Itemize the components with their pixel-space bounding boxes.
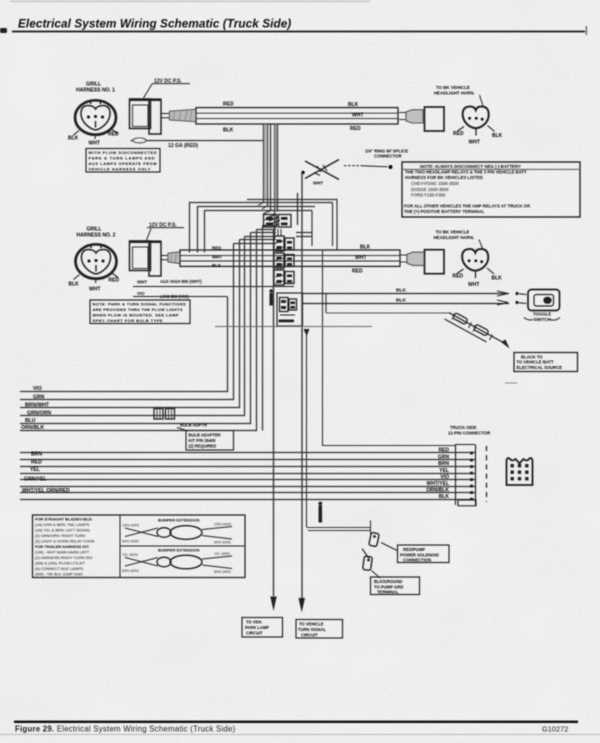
table chart box	[33, 515, 246, 578]
svg-text:VEHICLE HARNESS ONLY: VEHICLE HARNESS ONLY	[89, 167, 151, 172]
svg-text:NOTE: PARK & TURN SIGNAL FUNCT: NOTE: PARK & TURN SIGNAL FUNCTIONS	[93, 302, 186, 307]
svg-text:(5W) - TIE BLK JUMP GND: (5W) - TIE BLK JUMP GND	[35, 572, 83, 577]
svg-text:RED: RED	[352, 269, 363, 275]
svg-text:TOGGLE: TOGGLE	[533, 312, 551, 317]
svg-text:TO PUMP GRD: TO PUMP GRD	[374, 584, 403, 589]
svg-text:(2) HARNESS RIGHT TURN SIG: (2) HARNESS RIGHT TURN SIG	[35, 555, 92, 560]
svg-text:RED: RED	[350, 126, 361, 132]
splice X symbol	[301, 160, 339, 186]
svg-text:FOR STRAIGHT BLADE/V-BLD:: FOR STRAIGHT BLADE/V-BLD:	[35, 517, 93, 522]
arrow to park lamp box	[270, 597, 276, 612]
svg-text:RED: RED	[108, 132, 119, 138]
svg-text:RED: RED	[212, 246, 221, 251]
svg-text:12V DC P.S.: 12V DC P.S.	[149, 223, 177, 229]
svg-text:HEADLIGHT HARN.: HEADLIGHT HARN.	[434, 91, 475, 96]
svg-text:BULB ADAPTER: BULB ADAPTER	[189, 433, 221, 438]
svg-text:YEL: YEL	[439, 468, 449, 474]
svg-text:RED/PUMP: RED/PUMP	[403, 547, 425, 552]
svg-text:LOW BM (VIO): LOW BM (VIO)	[160, 294, 189, 299]
svg-text:SPEC CHART FOR BULB TYPE: SPEC CHART FOR BULB TYPE	[93, 318, 163, 323]
wire color labels group1	[21, 386, 51, 431]
svg-text:GRN: GRN	[438, 455, 450, 461]
svg-text:WHEN PLOW IS MOUNTED. SEE LAMP: WHEN PLOW IS MOUNTED. SEE LAMP	[93, 313, 179, 318]
svg-text:BRN WIRE: BRN WIRE	[122, 540, 140, 544]
stack lower box group	[277, 293, 303, 326]
label box pump solenoid	[398, 545, 450, 563]
svg-text:BLK: BLK	[492, 133, 503, 139]
svg-text:TURN SIGNAL: TURN SIGNAL	[298, 627, 326, 632]
svg-text:RED: RED	[109, 278, 120, 284]
svg-text:RED: RED	[223, 102, 234, 108]
svg-text:Electrical System Wiring Schem: Electrical System Wiring Schematic (Truc…	[18, 18, 291, 31]
footer caption	[15, 725, 568, 734]
svg-text:HARNESS NO. 2: HARNESS NO. 2	[77, 233, 116, 239]
svg-text:1/4" RING W/ SPLICE: 1/4" RING W/ SPLICE	[365, 148, 408, 153]
label H2 to vehicle headlight 2	[434, 230, 503, 289]
svg-text:DODGE 1500-3500: DODGE 1500-3500	[411, 187, 449, 192]
note box NB3 battery source	[514, 353, 578, 372]
svg-text:CIRCUIT: CIRCUIT	[246, 631, 263, 636]
footer rule top	[14, 721, 578, 723]
label bulb adapter w/ box	[177, 423, 234, 451]
svg-text:RED: RED	[453, 131, 464, 137]
svg-text:THE (+) POSITIVE BATTERY TERMI: THE (+) POSITIVE BATTERY TERMINAL	[404, 209, 485, 214]
svg-text:BLK: BLK	[348, 102, 359, 108]
stack module squiggles	[264, 218, 284, 283]
label C1 grille harness name	[68, 82, 119, 147]
label box park lamp	[242, 618, 283, 638]
splice 1/4 ring label	[365, 148, 408, 158]
wire bundle B2	[180, 250, 400, 266]
wire to pump solenoid	[307, 521, 372, 535]
svg-text:YEL WIRE: YEL WIRE	[122, 553, 139, 557]
switch lead arrows	[497, 291, 527, 305]
wire gray to battery note	[326, 312, 449, 314]
svg-text:AUX HIGH BM (WHT): AUX HIGH BM (WHT)	[160, 279, 202, 284]
wire vertical splice to turn signal box	[301, 173, 303, 598]
svg-text:GRN: GRN	[33, 394, 45, 400]
svg-text:TO VEH.: TO VEH.	[246, 620, 262, 625]
svg-text:WHT: WHT	[89, 287, 100, 293]
wire color labels group2 left	[22, 451, 70, 494]
connector stack modules	[264, 215, 295, 286]
scan smudge rule end	[0, 1, 370, 34]
svg-text:12-PIN CONNECTOR: 12-PIN CONNECTOR	[448, 431, 491, 436]
label L2 12V DC w/ pointer	[147, 223, 185, 241]
svg-text:(1W) - WHT MAIN HARN LEFT: (1W) - WHT MAIN HARN LEFT	[35, 550, 90, 555]
svg-text:BLK: BLK	[439, 494, 450, 500]
svg-text:BLU: BLU	[25, 418, 36, 424]
label L1 12V DC w/ pointer	[144, 79, 191, 99]
svg-text:CIRCUIT: CIRCUIT	[301, 632, 318, 637]
connector H1 headlight plug	[458, 107, 495, 136]
wire cross line y326	[215, 326, 372, 328]
scan tick right of title rule	[586, 26, 588, 35]
svg-text:RED: RED	[31, 460, 42, 466]
wire fan corner bundle to left wires	[20, 226, 276, 431]
inline connectors diagonal pair	[445, 313, 510, 349]
wire BLK to switch 2	[303, 298, 510, 304]
svg-text:RED: RED	[438, 448, 449, 454]
svg-text:GRN/YEL: GRN/YEL	[24, 477, 47, 483]
svg-text:HEADLIGHT HARN.: HEADLIGHT HARN.	[434, 235, 475, 240]
svg-text:BLK: BLK	[396, 288, 407, 294]
svg-text:VIO: VIO	[137, 291, 145, 296]
table drawing bottom: bumper extension 2	[122, 548, 232, 575]
svg-text:ORN/BLK: ORN/BLK	[21, 425, 45, 431]
connector R1 plug body	[130, 99, 162, 134]
connector R2 plug body	[130, 241, 162, 276]
svg-text:TO BK VEHICLE: TO BK VEHICLE	[436, 85, 470, 90]
svg-text:WHT: WHT	[137, 280, 147, 285]
svg-text:WHT: WHT	[468, 282, 479, 288]
svg-text:BLK: BLK	[492, 276, 503, 282]
svg-text:BLK: BLK	[360, 244, 371, 250]
svg-text:BRN WIRE: BRN WIRE	[214, 541, 232, 545]
svg-text:BLK/GROUND: BLK/GROUND	[374, 579, 402, 584]
svg-text:(2) REQUIRED: (2) REQUIRED	[189, 444, 217, 449]
svg-text:CHEVY/GMC 1500-3500: CHEVY/GMC 1500-3500	[411, 181, 459, 186]
svg-text:(1A) GRN & BRN: TAIL LAMPS: (1A) GRN & BRN: TAIL LAMPS	[35, 522, 90, 527]
connector H2 headlight plug 2	[457, 249, 494, 278]
pin bracket column	[455, 445, 487, 506]
svg-text:HARNESS FOR BK VEHICLES LISTED: HARNESS FOR BK VEHICLES LISTED	[405, 175, 483, 180]
svg-text:(3W) & (2W): PLOW LTS A/T: (3W) & (2W): PLOW LTS A/T	[35, 561, 86, 566]
svg-text:BRN: BRN	[31, 451, 42, 457]
label box turn signal	[296, 620, 343, 639]
svg-text:CONNECTOR: CONNECTOR	[374, 154, 403, 159]
svg-text:BRN WIRE: BRN WIRE	[214, 570, 232, 574]
wire vertical core bundle	[264, 125, 278, 241]
svg-text:Figure 29. Electrical System W: Figure 29. Electrical System Wiring Sche…	[15, 725, 236, 734]
svg-text:GRN WIRE: GRN WIRE	[214, 523, 232, 527]
label truck side connector	[448, 425, 491, 436]
title rule	[12, 31, 585, 33]
svg-text:WHT: WHT	[355, 255, 366, 261]
fuse bar left	[269, 289, 273, 305]
svg-text:(2) GRN/ORN: RIGHT TURN: (2) GRN/ORN: RIGHT TURN	[35, 533, 85, 538]
svg-text:TO VEHICLE: TO VEHICLE	[299, 622, 324, 627]
svg-text:12 GA (RED): 12 GA (RED)	[168, 143, 198, 149]
svg-text:(4) CONNECT AUX LAMPS: (4) CONNECT AUX LAMPS	[35, 566, 84, 571]
svg-text:NOTE: ALWAYS DISCONNECT NEG (-: NOTE: ALWAYS DISCONNECT NEG (-) BATTERY	[420, 164, 521, 169]
svg-text:FOR ALL OTHER VEHICLES THE AMP: FOR ALL OTHER VEHICLES THE AMP RELAYS AT…	[404, 203, 531, 208]
svg-text:CONNECTION: CONNECTION	[403, 558, 431, 563]
wire labels B2	[212, 244, 371, 274]
svg-text:WHT: WHT	[313, 181, 323, 186]
wire bundle B1	[196, 108, 398, 124]
svg-text:GRN WIRE: GRN WIRE	[122, 524, 140, 528]
connector C1 grille harness	[73, 100, 118, 139]
svg-text:BLK: BLK	[68, 136, 79, 142]
stub below note box	[505, 382, 517, 384]
svg-text:PARK & TURN LAMPS AND: PARK & TURN LAMPS AND	[89, 156, 155, 161]
svg-text:G10272: G10272	[542, 725, 568, 734]
svg-text:AUX LAMPS OPERATE FROM: AUX LAMPS OPERATE FROM	[89, 161, 157, 166]
title text	[18, 18, 291, 31]
svg-text:BLK: BLK	[69, 282, 80, 288]
svg-text:WITH PLOW DISCONNECTED: WITH PLOW DISCONNECTED	[89, 150, 157, 155]
svg-text:BRN/WHT: BRN/WHT	[25, 402, 50, 408]
label C2 name	[69, 227, 120, 293]
plug P1	[399, 110, 423, 123]
svg-text:PARK LAMP: PARK LAMP	[245, 625, 269, 630]
wire to bracket top	[323, 250, 456, 446]
svg-text:BRN WIRE: BRN WIRE	[122, 569, 140, 573]
svg-text:BLK: BLK	[212, 263, 222, 268]
wire labels B1	[223, 102, 363, 134]
wire aux high beam	[133, 279, 294, 286]
table drawing top: bumper extension	[122, 518, 232, 545]
svg-text:SWITCH: SWITCH	[534, 317, 551, 322]
svg-text:12V DC P.S.: 12V DC P.S.	[154, 79, 182, 85]
svg-text:FORD F150-F350: FORD F150-F350	[411, 193, 446, 198]
wire vertical to park lamp box	[273, 229, 275, 596]
svg-text:HARNESS NO. 1: HARNESS NO. 1	[76, 88, 115, 94]
label H1 to vehicle headlight	[434, 85, 503, 146]
svg-text:BLACK TO: BLACK TO	[521, 354, 543, 359]
wire feed trio to bundle B2	[190, 203, 333, 253]
inline connector pump ground	[362, 549, 380, 579]
inline connector pump solenoid	[369, 532, 397, 550]
svg-text:BUMPER EXTENSION: BUMPER EXTENSION	[158, 548, 200, 553]
wire color labels group2 right	[426, 448, 449, 501]
svg-text:WHT: WHT	[212, 255, 222, 260]
note box NB caution text	[402, 162, 580, 217]
toggle switch	[524, 290, 560, 322]
svg-text:WHT/YEL: WHT/YEL	[427, 481, 450, 487]
svg-text:RED: RED	[453, 274, 464, 280]
svg-text:TO VEHICLE BATT: TO VEHICLE BATT	[517, 360, 555, 365]
svg-text:BLK: BLK	[223, 128, 234, 134]
bulb adapter inline connectors	[154, 409, 175, 420]
svg-text:ORN/BLK: ORN/BLK	[426, 488, 449, 494]
connector S2 square	[425, 250, 445, 274]
label box pump ground	[371, 577, 420, 595]
svg-text:WHT: WHT	[352, 113, 363, 119]
loop box right of stack	[247, 193, 337, 250]
connector 12-pin grid	[507, 458, 533, 485]
svg-text:BULB ADPTR: BULB ADPTR	[180, 423, 207, 428]
svg-text:ARE PROVIDED THRU THE PLOW LIG: ARE PROVIDED THRU THE PLOW LIGHTS	[93, 307, 183, 312]
svg-text:YEL WIRE: YEL WIRE	[214, 552, 231, 556]
junction knot marks	[258, 202, 280, 224]
wire pump drop w/ arrow	[304, 329, 310, 527]
wire BLK to switch 1	[303, 288, 510, 294]
svg-text:WHT: WHT	[469, 140, 480, 146]
svg-text:WHT/YEL ORN/RED: WHT/YEL ORN/RED	[22, 488, 70, 494]
svg-text:TERMINAL: TERMINAL	[377, 590, 399, 595]
label box LB1	[86, 149, 160, 173]
svg-text:(3) LIGHT & HORN RELAY CONN: (3) LIGHT & HORN RELAY CONN	[35, 539, 95, 544]
svg-text:WHT: WHT	[89, 141, 100, 147]
svg-text:POWER SOLENOID: POWER SOLENOID	[400, 552, 439, 557]
footer rule bottom	[0, 733, 600, 736]
wire splice lead	[344, 165, 393, 169]
svg-text:FOR TRAILER HARNESS KIT:: FOR TRAILER HARNESS KIT:	[35, 544, 89, 549]
stack dark contacts	[266, 217, 292, 283]
svg-text:VIO: VIO	[440, 474, 449, 480]
plug P2	[400, 252, 424, 265]
wire 12GA red	[131, 138, 264, 149]
pump feed bar	[318, 502, 322, 523]
svg-text:BUMPER EXTENSION: BUMPER EXTENSION	[158, 518, 200, 523]
svg-text:YEL: YEL	[30, 467, 40, 473]
svg-text:KIT P/N 26400: KIT P/N 26400	[189, 438, 217, 443]
svg-text:ELECTRICAL SOURCE: ELECTRICAL SOURCE	[517, 365, 563, 370]
svg-text:GRN/ORN: GRN/ORN	[27, 410, 51, 416]
label box LB2	[90, 300, 190, 324]
connector C2 grille harness 2	[74, 244, 119, 283]
svg-text:(1B) YEL & BRN: LEFT SIGNAL: (1B) YEL & BRN: LEFT SIGNAL	[35, 528, 91, 533]
arrow to turn signal box	[299, 598, 306, 613]
svg-text:TRUCK-SIDE: TRUCK-SIDE	[450, 425, 477, 430]
svg-text:THE TWO HEADLAMP RELAYS & THE: THE TWO HEADLAMP RELAYS & THE 3 PIN VEHI…	[405, 170, 527, 175]
svg-text:VIO: VIO	[33, 386, 42, 392]
wires group2 to pin bracket	[20, 453, 475, 500]
svg-text:TO BK VEHICLE: TO BK VEHICLE	[436, 230, 470, 235]
ferrule F1	[161, 109, 196, 121]
wire aux low beam	[133, 291, 227, 299]
svg-text:BLK: BLK	[396, 298, 407, 304]
connector S1 square	[425, 107, 445, 131]
svg-text:BRN: BRN	[438, 461, 449, 467]
ferrule F2	[161, 252, 180, 264]
